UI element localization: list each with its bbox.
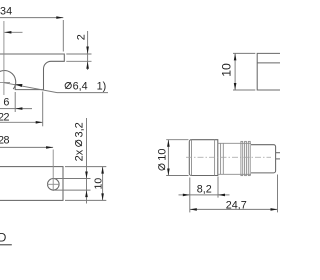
- svg-text:8,2: 8,2: [197, 183, 212, 195]
- svg-text:2x: 2x: [74, 149, 86, 161]
- svg-text:3,2: 3,2: [74, 122, 86, 137]
- svg-text:28: 28: [0, 135, 10, 147]
- svg-text:22: 22: [0, 111, 10, 123]
- svg-text:34: 34: [0, 6, 12, 18]
- svg-text:6,4: 6,4: [73, 81, 88, 93]
- svg-text:10: 10: [219, 63, 233, 77]
- svg-text:10: 10: [157, 148, 169, 160]
- svg-text:2: 2: [75, 34, 87, 40]
- svg-text:6: 6: [3, 96, 9, 108]
- svg-text:D: D: [0, 232, 6, 244]
- svg-text:1): 1): [97, 80, 107, 92]
